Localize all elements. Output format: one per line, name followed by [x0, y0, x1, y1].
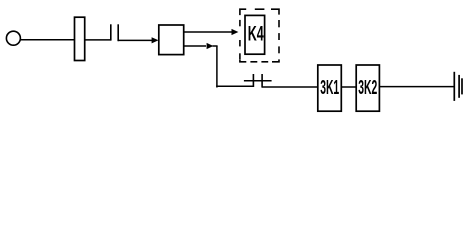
relay K4 coil box	[245, 15, 265, 54]
bottom wire to crossed contact	[216, 85, 253, 87]
wire with arrow, branch going down	[184, 43, 218, 49]
contactor 3K2 box	[356, 65, 379, 111]
wire between 3K1 and 3K2	[341, 86, 356, 88]
contactor 3K1 box	[318, 65, 342, 111]
svg-text:K4: K4	[248, 22, 264, 45]
crossed contact under K4	[244, 74, 272, 88]
logic block	[159, 25, 184, 55]
wire to 3K1	[262, 86, 318, 88]
coil element (tall rectangle)	[75, 17, 85, 60]
normally-open contact	[111, 24, 118, 41]
relay K4 dashed enclosure	[240, 9, 279, 62]
label 3K1	[320, 77, 339, 99]
label K4	[248, 22, 264, 45]
wire with arrow to relay K4	[184, 29, 239, 35]
svg-text:3K2: 3K2	[358, 77, 377, 99]
wire with arrow into logic block	[118, 37, 158, 43]
wire to contact	[85, 39, 111, 41]
vertical wire down to bottom rail	[216, 46, 218, 88]
svg-text:3K1: 3K1	[320, 77, 339, 99]
wire to ground	[379, 86, 454, 88]
ground symbol	[454, 72, 462, 101]
input terminal circle	[6, 31, 20, 45]
wire from terminal to coil element	[20, 39, 74, 41]
label 3K2	[358, 77, 377, 99]
